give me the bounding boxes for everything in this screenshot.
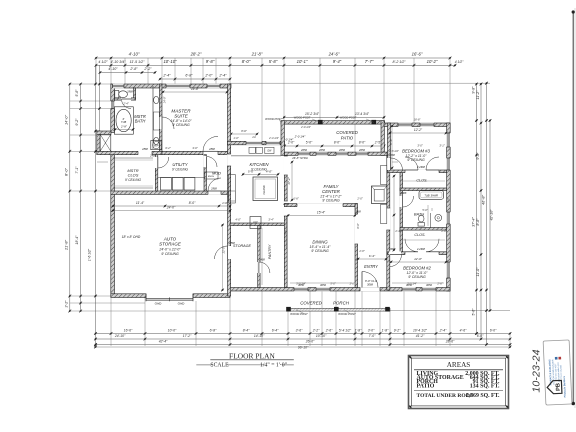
svg-text:KITCHEN: KITCHEN bbox=[249, 162, 269, 167]
svg-text:BATH: BATH bbox=[414, 212, 424, 217]
svg-text:REF: REF bbox=[253, 222, 258, 225]
svg-text:PB: PB bbox=[555, 383, 561, 391]
top dimension line 1 bbox=[96, 57, 450, 59]
svg-text:5'-8": 5'-8" bbox=[75, 89, 79, 97]
clos3 shelf bbox=[403, 180, 445, 182]
svg-text:9'-2": 9'-2" bbox=[394, 328, 401, 332]
svg-text:9' CEILING: 9' CEILING bbox=[322, 198, 340, 202]
svg-text:5'-4 1/2": 5'-4 1/2" bbox=[339, 328, 352, 332]
svg-text:6'-8": 6'-8" bbox=[210, 328, 217, 332]
areas table bbox=[408, 355, 509, 408]
svg-text:7'-7": 7'-7" bbox=[365, 59, 374, 64]
windows family top bbox=[298, 152, 310, 156]
svg-text:PATIO: PATIO bbox=[417, 383, 435, 389]
auto storage bottom wall right part bbox=[193, 294, 230, 298]
svg-text:12'-2" x 11'-0": 12'-2" x 11'-0" bbox=[406, 154, 428, 158]
svg-text:MUD: MUD bbox=[212, 171, 221, 176]
family interior vertical dim bbox=[291, 162, 293, 200]
svg-text:WOOD POST: WOOD POST bbox=[338, 312, 356, 316]
windows right wall bbox=[446, 133, 450, 147]
svg-text:7'-0": 7'-0" bbox=[369, 334, 376, 338]
svg-text:4'-10": 4'-10" bbox=[108, 67, 118, 71]
refrigerator bbox=[250, 217, 261, 229]
shower bump-out north wall bbox=[97, 131, 111, 134]
porch extension line to right dims bbox=[390, 310, 510, 312]
exterior wall: left upper bbox=[111, 84, 115, 133]
family east / hall west wall bbox=[387, 155, 390, 290]
svg-text:9' CEILING: 9' CEILING bbox=[161, 252, 179, 256]
svg-text:SUITE: SUITE bbox=[174, 113, 188, 118]
patio right wall bbox=[381, 121, 384, 156]
svg-text:8'-0": 8'-0" bbox=[189, 201, 196, 205]
interior dim: auto storage vertical bbox=[222, 225, 224, 290]
bottom exterior wall bbox=[230, 288, 450, 292]
svg-text:15'-2 3/4": 15'-2 3/4" bbox=[305, 112, 320, 116]
svg-text:5'-6": 5'-6" bbox=[471, 308, 475, 316]
bedroom2 north wall bbox=[388, 252, 447, 255]
kitchen counters bbox=[231, 155, 281, 157]
svg-text:15'-4": 15'-4" bbox=[317, 210, 326, 214]
svg-text:2'-8": 2'-8" bbox=[120, 125, 128, 129]
svg-text:SCALE: SCALE bbox=[210, 362, 229, 368]
svg-text:8'-8": 8'-8" bbox=[476, 218, 480, 226]
svg-text:PANTRY: PANTRY bbox=[268, 244, 272, 259]
svg-text:5'-0": 5'-0" bbox=[306, 141, 313, 145]
svg-text:4'-0": 4'-0" bbox=[266, 169, 273, 173]
svg-text:96'-10": 96'-10" bbox=[298, 346, 309, 350]
svg-text:1'-8": 1'-8" bbox=[382, 328, 389, 332]
svg-text:1'-6 1/2": 1'-6 1/2" bbox=[88, 248, 92, 261]
interior dim: bedroom3 vertical bbox=[391, 126, 393, 168]
svg-text:8'-0": 8'-0" bbox=[359, 141, 366, 145]
svg-text:PATIO: PATIO bbox=[341, 136, 354, 141]
storage/pantry north wall bbox=[230, 223, 285, 226]
svg-text:OHD: OHD bbox=[178, 302, 186, 306]
clos3 north wall w/ double doors bbox=[388, 170, 447, 173]
garage door opening lines bbox=[146, 298, 193, 300]
scale row bbox=[196, 364, 211, 366]
svg-text:18'-4": 18'-4" bbox=[75, 235, 79, 245]
svg-text:41'-2": 41'-2" bbox=[416, 334, 425, 338]
windows bottom wall bedroom2 bbox=[402, 287, 416, 291]
svg-text:STORAGE: STORAGE bbox=[233, 244, 252, 248]
svg-text:17'-2": 17'-2" bbox=[287, 176, 291, 184]
left dimension line outer bbox=[69, 84, 71, 311]
svg-text:2'-4": 2'-4" bbox=[218, 74, 227, 78]
svg-text:24'-10": 24'-10" bbox=[114, 334, 126, 338]
svg-text:28'-2": 28'-2" bbox=[190, 52, 202, 57]
garage east wall bbox=[228, 145, 231, 296]
tub/shower bath2 bbox=[419, 191, 444, 200]
dining/entry divider bbox=[355, 204, 358, 288]
svg-text:12'-0": 12'-0" bbox=[414, 257, 423, 261]
svg-text:6'-4": 6'-4" bbox=[369, 254, 376, 258]
svg-text:1'-0": 1'-0" bbox=[222, 201, 229, 205]
pantry shelves bbox=[261, 228, 263, 285]
svg-text:24'-6": 24'-6" bbox=[328, 52, 340, 57]
svg-text:9'-8": 9'-8" bbox=[206, 59, 215, 64]
top dimension line 3 (master suite windows) bbox=[160, 78, 230, 80]
storage / pantry divider bbox=[258, 226, 260, 288]
svg-text:21'-4" x 17'-2": 21'-4" x 17'-2" bbox=[319, 194, 342, 198]
roof/extension line across top bbox=[231, 82, 491, 84]
svg-text:3'-6": 3'-6" bbox=[296, 328, 303, 332]
svg-text:12'-0" x 11'-0": 12'-0" x 11'-0" bbox=[407, 271, 429, 275]
bedroom3 interior dim bbox=[390, 132, 446, 134]
page fold edge line bbox=[572, 11, 574, 405]
svg-text:2'-6": 2'-6" bbox=[325, 328, 333, 332]
svg-text:6'-4": 6'-4" bbox=[272, 328, 279, 332]
svg-text:2,869 SQ. FT.: 2,869 SQ. FT. bbox=[466, 393, 500, 399]
media cabinets beside fireplace bbox=[381, 166, 387, 185]
svg-text:3'-0": 3'-0" bbox=[368, 328, 375, 332]
kitchen/family west wall (dining west) bbox=[284, 155, 287, 287]
fireplace bbox=[372, 186, 387, 204]
closet/utility south wall = auto storage north bbox=[111, 191, 230, 194]
hall dims bbox=[392, 161, 398, 163]
svg-text:W/H: W/H bbox=[154, 145, 159, 147]
windows bottom wall dining bbox=[294, 287, 308, 291]
svg-text:4 1/2": 4 1/2" bbox=[455, 60, 464, 64]
svg-text:18' x 8' OHD: 18' x 8' OHD bbox=[122, 235, 141, 239]
svg-text:9'-4": 9'-4" bbox=[333, 59, 342, 64]
svg-text:9' CEILING: 9' CEILING bbox=[311, 249, 329, 253]
svg-text:6'-8": 6'-8" bbox=[185, 74, 193, 78]
top dimension line 2 bbox=[96, 64, 455, 66]
auto storage bottom wall left part bbox=[111, 294, 146, 298]
svg-text:BEDROOM #3: BEDROOM #3 bbox=[402, 149, 430, 154]
family room top wall bbox=[285, 152, 388, 155]
svg-text:21'-8": 21'-8" bbox=[251, 52, 263, 57]
utility washer dryer bbox=[161, 178, 172, 191]
svg-text:COVERED: COVERED bbox=[300, 300, 321, 305]
svg-text:2'-0": 2'-0" bbox=[204, 74, 213, 78]
clos2 shelf bbox=[403, 239, 445, 241]
utility / mud divider bbox=[204, 155, 207, 191]
master shower (bump-out) bbox=[100, 134, 111, 151]
patio left wall bbox=[281, 121, 284, 156]
svg-text:37'-4": 37'-4" bbox=[471, 216, 475, 226]
windows kitchen top bbox=[246, 141, 262, 145]
svg-text:14'-0": 14'-0" bbox=[63, 114, 68, 125]
svg-text:FLOOR PLAN: FLOOR PLAN bbox=[229, 352, 275, 361]
svg-text:9' CEILING: 9' CEILING bbox=[407, 158, 425, 162]
right dimension lines bbox=[476, 84, 478, 334]
windows top wall bbox=[113, 84, 125, 89]
svg-text:8'-4": 8'-4" bbox=[243, 328, 250, 332]
svg-text:2'-4": 2'-4" bbox=[439, 328, 447, 332]
svg-text:1'-8": 1'-8" bbox=[355, 328, 362, 332]
hall vertical dim bbox=[393, 176, 395, 250]
svg-text:AREAS: AREAS bbox=[447, 361, 471, 369]
svg-text:10'-0": 10'-0" bbox=[168, 328, 177, 332]
windows left wall bbox=[111, 101, 115, 109]
svg-text:2'-2": 2'-2" bbox=[312, 328, 320, 332]
kitchen island bbox=[253, 177, 278, 201]
svg-text:42'-10": 42'-10" bbox=[490, 209, 494, 221]
bedroom3 west wall bbox=[388, 123, 391, 171]
svg-text:4'-10": 4'-10" bbox=[129, 52, 140, 57]
svg-text:MASTER: MASTER bbox=[171, 109, 191, 114]
svg-text:9'-2": 9'-2" bbox=[75, 118, 79, 126]
builder logo block bbox=[543, 340, 572, 405]
svg-text:AUTO: AUTO bbox=[163, 237, 177, 242]
bath / suite divider bbox=[160, 84, 163, 151]
master suite interior dim bbox=[163, 91, 227, 93]
hall east / bath west wall bbox=[400, 171, 403, 255]
svg-text:5'-0": 5'-0" bbox=[248, 169, 255, 173]
exterior wall: left lower bbox=[111, 151, 115, 296]
mud bench bbox=[205, 172, 219, 179]
svg-text:21'-8": 21'-8" bbox=[63, 239, 68, 251]
svg-text:9' CEILING: 9' CEILING bbox=[408, 275, 426, 279]
svg-text:11'-5 1/2": 11'-5 1/2" bbox=[130, 60, 146, 64]
toilet (master WC) bbox=[115, 91, 119, 98]
bottom dimension line 1 bbox=[96, 333, 511, 335]
covered porch slab bbox=[288, 308, 391, 311]
svg-text:BATH: BATH bbox=[135, 119, 146, 124]
svg-text:FAMILY: FAMILY bbox=[324, 184, 340, 189]
auto storage interior dims bbox=[113, 205, 230, 207]
svg-text:10'-10": 10'-10" bbox=[316, 334, 327, 338]
svg-text:9' CEILING: 9' CEILING bbox=[172, 123, 190, 127]
bedroom3 top wall bbox=[384, 123, 450, 127]
svg-text:8'-0": 8'-0" bbox=[242, 59, 251, 64]
mstr clos / utility divider bbox=[155, 155, 158, 191]
bedroom2 door from hall bbox=[389, 251, 401, 255]
svg-text:10'-1": 10'-1" bbox=[297, 59, 308, 64]
svg-text:26'-8" STRU: 26'-8" STRU bbox=[291, 156, 308, 160]
water heater closet bbox=[151, 141, 162, 150]
kitchen west ovens bbox=[229, 175, 236, 204]
family/dining divider bbox=[284, 204, 357, 207]
top extension lines bbox=[95, 58, 97, 84]
svg-text:10'-2": 10'-2" bbox=[427, 59, 438, 64]
svg-text:ENTRY: ENTRY bbox=[364, 264, 378, 269]
svg-text:15'-4" x 11'-4": 15'-4" x 11'-4" bbox=[310, 245, 332, 249]
covered patio slab edge / top wall bbox=[281, 121, 385, 124]
svg-text:TOTAL UNDER ROOF: TOTAL UNDER ROOF bbox=[417, 393, 474, 399]
svg-text:8'-0" CLG: 8'-0" CLG bbox=[365, 279, 378, 283]
svg-text:9' CEILING: 9' CEILING bbox=[125, 178, 142, 182]
interior dim: dining/entry along bottom bbox=[290, 282, 352, 284]
exterior wall: top (master wing) bbox=[111, 84, 231, 88]
svg-text:CLOS.: CLOS. bbox=[414, 233, 425, 237]
svg-text:14'-10": 14'-10" bbox=[254, 334, 265, 338]
left dimension line inner bbox=[80, 84, 82, 311]
bath/closet divider wall (left wing) bbox=[97, 151, 162, 154]
right exterior wall bbox=[447, 123, 451, 291]
svg-text:42'-4": 42'-4" bbox=[159, 339, 168, 343]
svg-text:16'-6": 16'-6" bbox=[124, 328, 133, 332]
svg-text:10'-4 1/2": 10'-4 1/2" bbox=[413, 328, 428, 332]
svg-text:WOOD POST: WOOD POST bbox=[290, 312, 308, 316]
bottom dimension line 3 bbox=[96, 344, 511, 346]
kitchen interior dim bbox=[243, 173, 278, 175]
master tub bbox=[114, 107, 133, 134]
svg-text:12'-2": 12'-2" bbox=[414, 128, 423, 132]
svg-text:16'-6": 16'-6" bbox=[412, 52, 423, 57]
svg-text:11'-2": 11'-2" bbox=[476, 90, 480, 100]
entry dim bbox=[358, 258, 386, 260]
mstr clos shelves bbox=[113, 157, 153, 159]
svg-text:9' CEILING: 9' CEILING bbox=[172, 168, 189, 172]
entry door opening bbox=[360, 287, 380, 291]
svg-text:14'-8": 14'-8" bbox=[191, 87, 200, 91]
bedroom2 interior dim bbox=[391, 261, 446, 263]
master suite right wall bbox=[228, 84, 231, 145]
svg-text:11'-4": 11'-4" bbox=[136, 201, 145, 205]
svg-text:10-23-24: 10-23-24 bbox=[530, 349, 542, 392]
svg-text:8'-2 1/2": 8'-2 1/2" bbox=[392, 60, 406, 64]
svg-text:4'-10 3/4": 4'-10 3/4" bbox=[110, 60, 126, 64]
left extension horizontals bbox=[70, 83, 111, 85]
svg-text:5'-8": 5'-8" bbox=[269, 59, 278, 64]
svg-text:TUB/ SHWR: TUB/ SHWR bbox=[424, 194, 438, 197]
bath vertical dim bbox=[427, 205, 429, 226]
bedroom3 door bbox=[387, 158, 391, 170]
svg-text:8'-0": 8'-0" bbox=[334, 141, 341, 145]
suite south wall bbox=[162, 151, 228, 154]
svg-text:17'-2": 17'-2" bbox=[183, 334, 192, 338]
svg-text:4 1/2": 4 1/2" bbox=[98, 60, 108, 64]
svg-text:COVERED: COVERED bbox=[336, 130, 357, 135]
svg-text:BEDROOM #2: BEDROOM #2 bbox=[403, 266, 431, 271]
patio inner dimension bbox=[285, 145, 385, 147]
svg-text:CENTER: CENTER bbox=[322, 189, 340, 194]
svg-text:CLOS.: CLOS. bbox=[416, 179, 427, 183]
svg-text:2'-0 1/4": 2'-0 1/4" bbox=[294, 134, 307, 138]
svg-text:14'-8" x 14'-0": 14'-8" x 14'-0" bbox=[170, 119, 192, 123]
svg-text:MSTR: MSTR bbox=[127, 168, 138, 173]
svg-text:4'-6": 4'-6" bbox=[460, 328, 467, 332]
bath2 vanity toilet sink bbox=[430, 213, 432, 228]
bottom extension lines bbox=[110, 298, 112, 347]
bath north wall bbox=[400, 188, 447, 191]
svg-text:46'-8": 46'-8" bbox=[480, 194, 485, 205]
toilet room walls bbox=[134, 88, 136, 99]
svg-text:2'-8": 2'-8" bbox=[129, 67, 138, 71]
master vanity bbox=[152, 86, 154, 149]
svg-text:3'-2": 3'-2" bbox=[64, 300, 68, 308]
svg-text:OHD: OHD bbox=[155, 302, 163, 306]
svg-text:2'-4": 2'-4" bbox=[162, 74, 171, 78]
svg-text:6'-0": 6'-0" bbox=[490, 328, 497, 332]
page edge gray strip bbox=[574, 8, 576, 408]
svg-text:24'-0": 24'-0" bbox=[166, 206, 176, 210]
svg-text:24'-0" x 22'-0": 24'-0" x 22'-0" bbox=[158, 248, 181, 252]
svg-text:UTILITY: UTILITY bbox=[172, 162, 187, 167]
svg-text:134 SQ. FT.: 134 SQ. FT. bbox=[470, 383, 500, 389]
left wing small dims bbox=[115, 129, 133, 131]
svg-text:BNCH: BNCH bbox=[208, 176, 215, 178]
windows bedroom3 top bbox=[398, 123, 412, 127]
dining interior dim bbox=[288, 215, 355, 217]
bath south wall bbox=[400, 228, 447, 231]
svg-text:13'-4 3/4": 13'-4 3/4" bbox=[355, 112, 370, 116]
svg-text:PORCH: PORCH bbox=[333, 300, 350, 305]
bottom dimension line 2 bbox=[96, 338, 511, 340]
svg-text:9'-0": 9'-0" bbox=[476, 152, 480, 160]
misc leader lines bbox=[296, 310, 304, 314]
shower bump-out west wall bbox=[97, 131, 100, 151]
svg-text:DINING: DINING bbox=[312, 240, 328, 245]
kitchen top wall bbox=[228, 141, 285, 145]
svg-text:9'-8": 9'-8" bbox=[471, 86, 475, 94]
svg-text:CLOS: CLOS bbox=[128, 173, 139, 178]
svg-text:1/4" = 1'-0": 1/4" = 1'-0" bbox=[260, 362, 287, 368]
interior dim: family west vertical bbox=[285, 216, 287, 248]
svg-text:8'-0": 8'-0" bbox=[63, 167, 68, 175]
svg-text:6'-0": 6'-0" bbox=[477, 334, 484, 338]
svg-text:STORAGE: STORAGE bbox=[159, 242, 182, 247]
svg-text:11'-0": 11'-0" bbox=[476, 267, 480, 277]
inner left dim line bbox=[95, 65, 97, 345]
svg-text:7'-1": 7'-1" bbox=[75, 166, 79, 174]
